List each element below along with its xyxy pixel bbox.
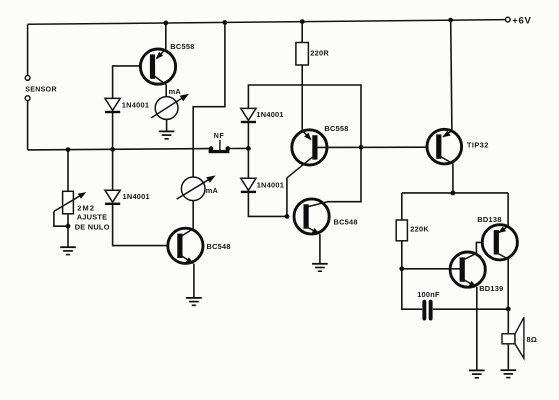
pin Q1 emitter with arrow bbox=[156, 49, 166, 59]
svg-text:1N4001: 1N4001 bbox=[122, 100, 149, 109]
wire +6V supply rail bbox=[28, 20, 506, 25]
label NF bbox=[214, 133, 225, 140]
pin Q3 emitter with arrow bbox=[303, 131, 312, 141]
wire rail to sensor upper terminal bbox=[27, 24, 29, 75]
label BD138 bbox=[477, 215, 501, 224]
label SENSOR bbox=[25, 87, 57, 94]
ground below Q4 bbox=[312, 264, 328, 271]
ground below Q2 bbox=[186, 298, 202, 305]
transistor Q4 BC548 (NPN) bbox=[294, 199, 329, 234]
node junction C1 / Q6 collector / speaker bbox=[506, 307, 511, 312]
svg-text:mA: mA bbox=[206, 186, 219, 195]
pin Q6 emitter with arrow bbox=[498, 226, 508, 233]
wire node X down to Q4 collector link bbox=[327, 147, 361, 201]
pin Q6 collector bbox=[494, 252, 508, 260]
label 8 ohm bbox=[527, 335, 538, 344]
label BC548 Q2 bbox=[207, 242, 231, 251]
switch NF contact left bbox=[209, 146, 214, 151]
svg-text:AJUSTE: AJUSTE bbox=[77, 212, 108, 221]
wire 220R to Q3 emitter bbox=[301, 65, 303, 131]
label 1N4001 D1 bbox=[122, 100, 149, 109]
node junction Q3 collector / D4 / Q4 base bbox=[285, 214, 290, 219]
wire D4 cathode to Q4 base node bbox=[248, 193, 287, 216]
wire TIP32 collector down to output node bbox=[452, 163, 454, 193]
wire P1 bottom to ground bbox=[67, 214, 69, 247]
wire NF right contact to diode chain bbox=[230, 147, 248, 149]
label 1N4001 D4 bbox=[257, 181, 284, 190]
switch NF contact right bbox=[226, 146, 231, 151]
svg-text:220R: 220R bbox=[310, 49, 329, 58]
label 220R bbox=[310, 49, 329, 58]
resistor R1 220R bbox=[296, 43, 309, 66]
svg-text:SENSOR: SENSOR bbox=[25, 87, 57, 94]
pin Q4 collector bbox=[306, 202, 327, 207]
node bus junction at trimpot bbox=[66, 147, 71, 152]
wire node X base line Q3 to TIP32 bbox=[314, 146, 428, 148]
transistor Q2 BC548 (NPN) bbox=[168, 228, 203, 263]
speaker LS1 cone bbox=[515, 317, 524, 358]
label 100nF bbox=[417, 290, 440, 299]
pin Q3 collector bbox=[287, 157, 312, 178]
switch NF actuator stem bbox=[219, 140, 221, 151]
svg-text:BC558: BC558 bbox=[170, 42, 194, 51]
pin Q2 collector bbox=[180, 229, 194, 237]
transistor Q7 BD139 (NPN) bbox=[450, 252, 485, 287]
wire rail to meter M2 bbox=[193, 22, 225, 177]
node rail junction at meter M2 branch bbox=[223, 20, 228, 25]
wire meter M2 to Q2 collector bbox=[192, 201, 194, 229]
ground below Q7 bbox=[469, 370, 485, 377]
wire speaker to ground bbox=[507, 344, 509, 370]
wire sensor lower terminal down to bus bbox=[27, 101, 29, 150]
transistor Q6 BD138 (PNP, Darlington top) bbox=[482, 225, 517, 260]
svg-text:NF: NF bbox=[214, 133, 225, 140]
resistor R2 220K bbox=[396, 220, 407, 241]
transistor Q3 BC558 (PNP, mirrored) bbox=[292, 130, 327, 165]
wire rail to TIP32 emitter bbox=[451, 20, 452, 130]
potentiometer P1 2M2 body bbox=[63, 191, 74, 214]
wire bus to D2 bbox=[112, 149, 114, 190]
pin Q5 emitter with arrow bbox=[442, 131, 452, 138]
svg-text:1N4001: 1N4001 bbox=[123, 192, 150, 201]
wire P1 wiper to bottom terminal bbox=[54, 211, 68, 226]
diode D2 1N4001 bbox=[105, 190, 120, 204]
label +6V bbox=[512, 15, 531, 26]
wire output node to 220K bbox=[401, 193, 403, 220]
pin Q5 collector bbox=[439, 156, 453, 164]
svg-text:BC548: BC548 bbox=[334, 217, 358, 226]
diode D4 1N4001 bbox=[241, 178, 256, 192]
node P1 wiper junction bbox=[66, 224, 71, 229]
ground below trimpot bbox=[60, 247, 76, 254]
wire Q4 emitter to ground bbox=[319, 234, 321, 263]
diode D1 1N4001 bbox=[105, 98, 120, 112]
wire D2 cathode to Q2 base bbox=[113, 205, 168, 246]
svg-text:BD139: BD139 bbox=[479, 284, 503, 293]
svg-text:2M2: 2M2 bbox=[77, 204, 95, 213]
node rail junction at 220R bbox=[300, 19, 305, 24]
svg-text:1N4001: 1N4001 bbox=[256, 110, 283, 119]
terminal SENSOR upper bbox=[25, 76, 30, 81]
wire Q3 collector down to Q4 base node bbox=[286, 178, 288, 217]
wire node to speaker bbox=[507, 309, 509, 334]
diode D3 1N4001 bbox=[241, 108, 256, 122]
svg-text:BC558: BC558 bbox=[324, 124, 348, 133]
svg-text:220K: 220K bbox=[410, 224, 429, 233]
pin Q7 collector bbox=[462, 253, 476, 260]
wire ground-side bus bbox=[28, 149, 211, 150]
node junction 220K / Q7 base / C1 bbox=[399, 266, 404, 271]
wire Q1 collector to meter M1 bbox=[165, 85, 167, 97]
node bus junction at D2 bbox=[110, 147, 115, 152]
ground below meter M1 bbox=[159, 131, 175, 138]
capacitor C1 100nF plate left bbox=[422, 300, 426, 321]
label 2M2 bbox=[77, 204, 95, 213]
wire node to Q7 base bbox=[402, 268, 460, 270]
label 1N4001 D3 bbox=[256, 110, 283, 119]
label BD139 bbox=[479, 284, 503, 293]
svg-text:TIP32: TIP32 bbox=[467, 141, 489, 150]
svg-text:100nF: 100nF bbox=[417, 290, 440, 299]
label BC558 Q3 bbox=[324, 124, 348, 133]
node junction NF / diode chain bbox=[246, 146, 251, 151]
label TIP32 bbox=[467, 141, 489, 150]
label BC548 Q4 bbox=[334, 217, 358, 226]
wire Q2 emitter to ground bbox=[193, 264, 195, 298]
transistor Q5 TIP32 (PNP) bbox=[427, 129, 462, 164]
wire Q7 collector to Q6 base bbox=[476, 242, 482, 253]
wire Q6 emitter up to output node bbox=[507, 193, 509, 226]
wire C1 to speaker node bbox=[433, 308, 509, 310]
wire rail to 220R bbox=[301, 22, 303, 43]
capacitor C1 100nF plate right bbox=[429, 300, 433, 321]
wire bus to trimpot bbox=[67, 150, 69, 192]
node X junction bbox=[359, 145, 364, 150]
node output junction at TIP32 collector bbox=[451, 191, 456, 196]
potentiometer P1 wiper arrow bbox=[54, 192, 86, 211]
svg-text:1N4001: 1N4001 bbox=[257, 181, 284, 190]
terminal +6V bbox=[506, 17, 511, 22]
pin Q7 emitter with arrow bbox=[462, 279, 477, 287]
svg-text:DE NULO: DE NULO bbox=[75, 222, 110, 231]
label 1N4001 D2 bbox=[123, 192, 150, 201]
node rail junction at TIP32 emitter bbox=[448, 18, 453, 23]
wire Q1 base to D1 bbox=[113, 66, 141, 99]
svg-text:+6V: +6V bbox=[512, 15, 531, 26]
meter M1 mA bbox=[151, 94, 189, 120]
switch NF bridge bar bbox=[209, 150, 230, 153]
speaker LS1 driver box bbox=[502, 334, 515, 344]
wire Q7 emitter to ground bbox=[476, 287, 478, 370]
label mA M2 bbox=[206, 186, 219, 195]
svg-text:BC548: BC548 bbox=[207, 242, 231, 251]
wire D1 cathode to bus bbox=[112, 113, 114, 149]
pin Q1 collector bbox=[152, 75, 166, 85]
label AJUSTE bbox=[77, 212, 108, 221]
wire rail to Q1 emitter bbox=[165, 23, 167, 49]
label 220K bbox=[410, 224, 429, 233]
transistor Q1 BC558 (PNP) bbox=[140, 49, 175, 84]
label mA M1 bbox=[169, 87, 182, 96]
terminal SENSOR lower bbox=[25, 96, 30, 101]
ground below speaker bbox=[501, 370, 517, 377]
pin Q4 emitter with arrow bbox=[306, 227, 320, 235]
wire node down to C1 bbox=[402, 269, 423, 309]
wire chain top corner to node X bbox=[248, 85, 361, 147]
label BC558 Q1 bbox=[170, 42, 194, 51]
node rail junction at Q1 emitter bbox=[163, 21, 168, 26]
wire output node horizontal bbox=[402, 192, 508, 194]
wire 220K to Q7 base node bbox=[401, 241, 403, 269]
svg-text:mA: mA bbox=[169, 87, 182, 96]
svg-text:BD138: BD138 bbox=[477, 215, 501, 224]
label DE NULO bbox=[75, 222, 110, 231]
wire Q6 collector down to speaker node bbox=[507, 259, 509, 309]
wire meter M1 to ground bbox=[166, 119, 168, 131]
meter M2 mA bbox=[177, 175, 216, 200]
svg-text:8Ω: 8Ω bbox=[527, 335, 538, 344]
wire D3 to D4 through NF node bbox=[247, 123, 249, 178]
pin Q2 emitter with arrow bbox=[180, 255, 194, 264]
